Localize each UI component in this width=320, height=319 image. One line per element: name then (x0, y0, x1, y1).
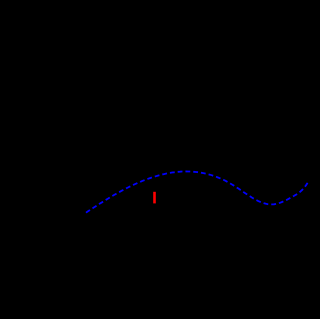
blue dashed fitted curve (86, 171, 308, 212)
red vertical error bar (153, 192, 156, 204)
